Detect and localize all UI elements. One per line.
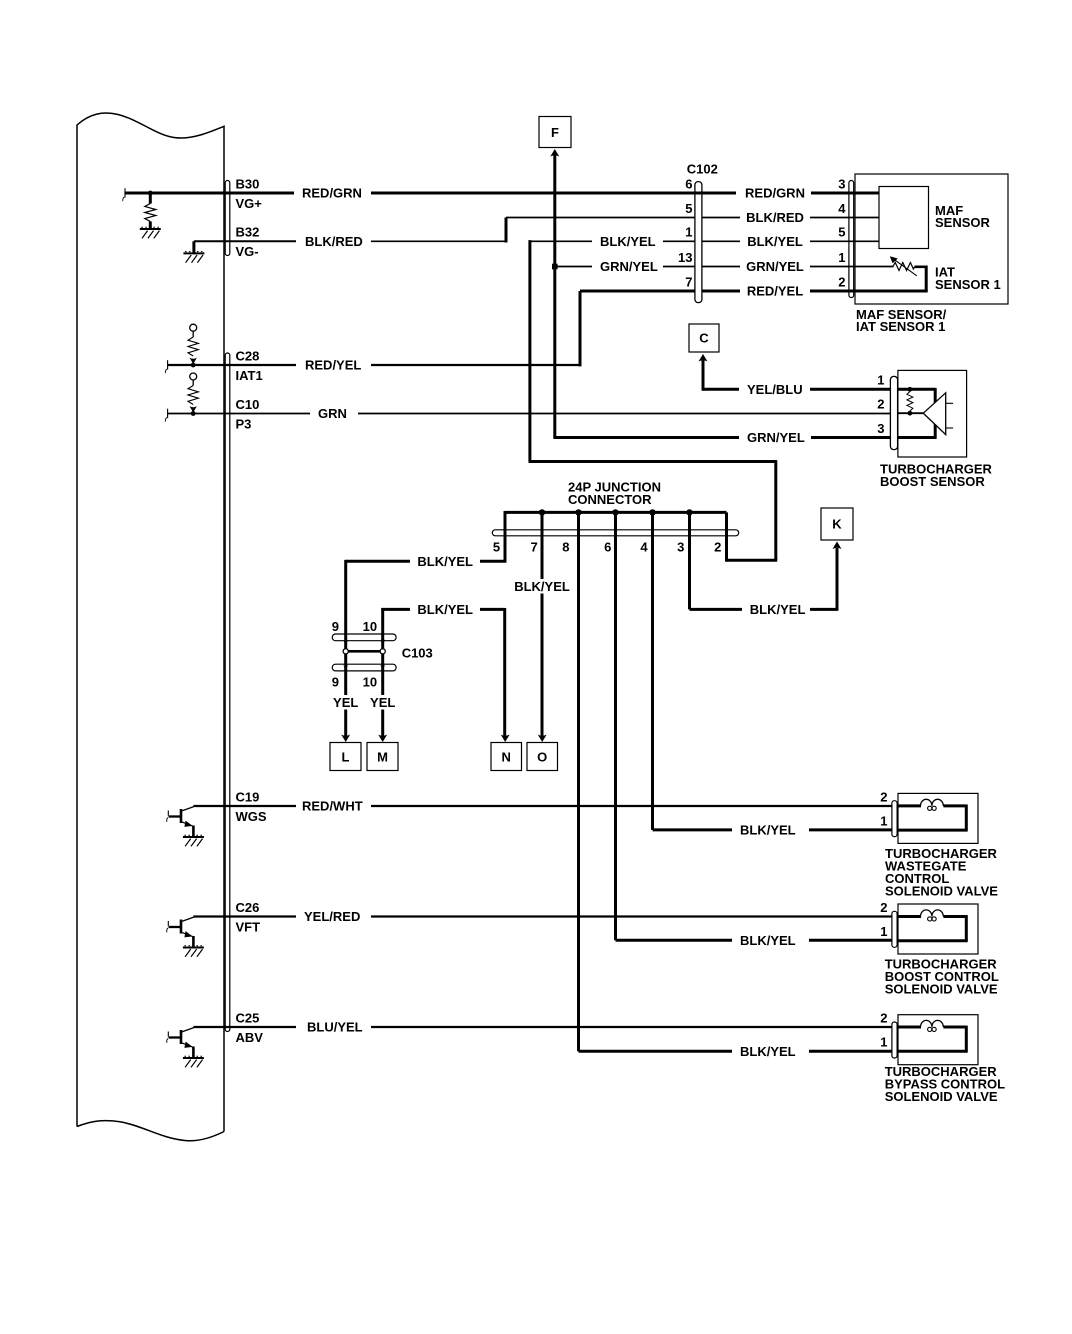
24P pin 5 vertical (504, 511, 507, 561)
wire BLK/YEL label to boost control solenoid pin 1 (809, 939, 892, 942)
svg-text:M: M (377, 749, 388, 764)
wire BLK/YEL label to K riser (810, 608, 837, 611)
transistor (ECM driver C26) collector lead (182, 917, 194, 921)
ground (B32) (183, 252, 204, 254)
svg-text:6: 6 (604, 540, 611, 555)
junction dot 24P bus x=542 (539, 509, 545, 515)
svg-text:C28: C28 (236, 348, 260, 363)
wire YEL/BLU label to boost pin 1 (810, 388, 890, 391)
svg-text:BLK/YEL: BLK/YEL (514, 579, 570, 594)
svg-text:C102: C102 (687, 161, 718, 176)
C103 terminal arrow pin 9 lower (343, 665, 348, 670)
wire BLK/YEL label to wastegate solenoid pin 1 (809, 828, 892, 831)
svg-text:3: 3 (838, 176, 845, 191)
bypass solenoid coil L (921, 1020, 944, 1027)
wire RED/GRN B30 stub with junction (125, 192, 294, 195)
svg-text:F: F (551, 125, 559, 140)
svg-text:1: 1 (880, 924, 887, 939)
transistor (ECM driver C25) collector lead (182, 1028, 194, 1032)
bypass solenoid internal return (897, 1050, 968, 1053)
junction dot GRN/YEL at F line (552, 264, 558, 270)
connector box F (539, 117, 571, 148)
transistor C25 emitter lead (182, 1043, 194, 1048)
wire BLK/YEL left segment to C102 pin 1 (530, 240, 592, 242)
svg-text:WGS: WGS (236, 809, 267, 824)
boost control solenoid internal return (897, 939, 968, 942)
svg-text:5: 5 (838, 225, 845, 240)
junction dot B30 resistor tap (148, 191, 153, 196)
ground (C26 driver) (183, 947, 204, 949)
bypass solenoid connector bracket (892, 1022, 897, 1058)
junction dot 24P bus x=689.5 (686, 509, 692, 515)
wire C103 pin 10 riser (381, 608, 384, 641)
svg-text:1: 1 (685, 225, 692, 240)
svg-text:BLK/RED: BLK/RED (305, 234, 363, 249)
transistor C26 emitter lead (182, 932, 194, 937)
24P junction connector strip (492, 530, 738, 536)
wire RED/GRN B30 to C102 pin 6 (371, 192, 736, 195)
svg-text:3: 3 (677, 540, 684, 555)
svg-text:10: 10 (363, 619, 377, 634)
transistor C26 base lead (169, 926, 181, 928)
junction dot C10 (191, 411, 196, 416)
triangle output tick lower (946, 427, 953, 429)
svg-text:8: 8 (562, 540, 569, 555)
wire B32 to ground corner (194, 240, 296, 242)
wastegate solenoid coil lead-in (897, 804, 921, 807)
svg-text:VG-: VG- (236, 244, 259, 259)
wire RED/YEL vertical jog (579, 291, 582, 366)
op-amp style triangle (boost sensor) (923, 393, 945, 435)
wire BLK/YEL right vertical (774, 460, 777, 560)
transistor C25 base bar (180, 1030, 183, 1044)
wire N riser vertical with arrow to N (503, 608, 506, 737)
wire BLK/YEL C102 pin1 right (702, 240, 740, 242)
svg-text:13: 13 (678, 250, 692, 265)
wire GRN label to boost pin 2 (358, 413, 890, 415)
wire BLK/RED C102 pin 5 to label (702, 217, 740, 219)
MAF sensor / IAT sensor 1 outer box (855, 174, 1008, 304)
24P pin 4 vertical (651, 511, 654, 830)
ECM connector bracket (B30,B32) (225, 181, 230, 256)
resistor lead (B30 pull-down) (149, 193, 152, 204)
connector C103 upper strip (332, 634, 396, 641)
wire BLK/YEL pin10 run right (381, 608, 410, 611)
svg-text:SOLENOID VALVE: SOLENOID VALVE (885, 1089, 998, 1104)
svg-text:N: N (502, 749, 511, 764)
wire RED/YEL C28 to label (168, 364, 296, 366)
C103 terminal arrow pin 9 upper (343, 640, 348, 645)
wire GRN C10 to label (168, 413, 310, 415)
svg-text:YEL/RED: YEL/RED (304, 909, 360, 924)
svg-text:BLK/YEL: BLK/YEL (740, 823, 796, 838)
resistor to ground lead (149, 222, 152, 230)
turbocharger boost sensor outer box (898, 370, 967, 457)
wire RED/YEL label to corner (371, 364, 580, 366)
transistor C19 base end tick (167, 811, 169, 816)
triangle output tick upper (946, 402, 953, 404)
MAF sensor inner box (879, 187, 929, 249)
svg-text:YEL: YEL (333, 695, 358, 710)
svg-text:3: 3 (877, 421, 884, 436)
wire GRN/YEL bottom run to boost sensor (553, 436, 739, 439)
boost control solenoid connector bracket (892, 911, 897, 947)
wire BLK/YEL main vertical (528, 240, 531, 461)
wire BLU/YEL C25 to label (193, 1026, 296, 1028)
24P junction connector bus bar (505, 511, 727, 514)
svg-text:C: C (699, 331, 709, 346)
svg-text:5: 5 (685, 201, 692, 216)
C103 jumper terminal circle left (343, 649, 348, 654)
svg-text:7: 7 (530, 540, 537, 555)
wire GRN/YEL label to IAT pin 1 (810, 266, 894, 268)
svg-text:IAT1: IAT1 (236, 368, 263, 383)
ground (C25 driver) (183, 1057, 204, 1059)
C103 internal jumper bar (346, 650, 383, 653)
C103 terminal arrow pin 10 lower (380, 665, 385, 670)
junction dot 24P bus x=615.5 (612, 509, 618, 515)
wastegate solenoid coil lead-out (943, 804, 966, 807)
wastegate solenoid connector bracket (892, 801, 897, 837)
connector C102 bracket (695, 182, 702, 303)
terminal circle (C28 pull-up) (190, 324, 197, 331)
wire BLK/YEL pin8 run (579, 1050, 733, 1053)
ground (C19 driver) (183, 836, 204, 838)
wire RED/GRN C102 pin 6 to MAF pin 3 (811, 192, 879, 195)
wire F arrow vertical (553, 155, 556, 438)
svg-text:4: 4 (838, 201, 846, 216)
transistor C26 base bar (180, 920, 183, 934)
svg-text:SENSOR: SENSOR (935, 215, 991, 230)
boost control solenoid coil lead-out (943, 915, 966, 918)
arrowhead into box F (550, 149, 559, 157)
ground (B30 resistor) (140, 228, 161, 230)
connector C103 lower strip (332, 664, 396, 671)
C103 pin 10 through connector (381, 639, 384, 695)
ECM/PCM block outline (torn edges) (77, 113, 224, 1141)
wire BLK/YEL label to MAF pin 5 (810, 240, 879, 242)
transistor C19 base bar (180, 809, 183, 823)
wire GRN inside boost sensor (898, 412, 923, 414)
svg-text:2: 2 (880, 900, 887, 915)
junction dot 24P bus x=652.5 (649, 509, 655, 515)
svg-text:10: 10 (363, 674, 377, 689)
svg-text:6: 6 (685, 176, 692, 191)
arrowhead onto C28 wire (189, 358, 197, 365)
svg-text:B32: B32 (236, 225, 260, 240)
connector box O (527, 743, 558, 771)
boost control solenoid internal vertical (965, 915, 968, 941)
wire 24P pin 2 below strip (725, 512, 728, 561)
wire BLK/YEL pin3 run (690, 608, 743, 611)
wire BLK/YEL pin6 run (616, 939, 733, 942)
wire BLK/YEL pin5 run left (480, 560, 506, 563)
wire RED/WHT C19 to label (193, 805, 296, 807)
connector box C (689, 324, 719, 352)
svg-text:VG+: VG+ (236, 196, 263, 211)
bypass solenoid internal vertical (965, 1026, 968, 1052)
svg-text:C10: C10 (236, 397, 260, 412)
svg-text:VFT: VFT (236, 919, 261, 934)
svg-text:2: 2 (838, 274, 845, 289)
wire GRN/YEL label to C102 pin 13 (663, 266, 695, 268)
wastegate solenoid internal return (897, 829, 968, 832)
wire BLK/YEL label to bypass solenoid pin 1 (809, 1050, 892, 1053)
svg-text:K: K (832, 517, 842, 532)
svg-text:BLK/RED: BLK/RED (746, 210, 804, 225)
wire end tick C10 (167, 409, 169, 418)
svg-text:C103: C103 (402, 645, 433, 660)
wire BLU/YEL label to solenoid pin 2 (371, 1026, 892, 1028)
wire RED/YEL to C102 pin 7 (580, 290, 695, 293)
svg-text:2: 2 (877, 397, 884, 412)
wire BLK/RED vertical jog (505, 218, 508, 243)
wire K riser vertical (836, 548, 839, 611)
wire boost internal pin3 run (898, 436, 937, 439)
svg-text:9: 9 (332, 619, 339, 634)
boost control solenoid coil L (921, 910, 944, 917)
svg-text:GRN/YEL: GRN/YEL (746, 259, 804, 274)
bypass solenoid coil lead-out (943, 1026, 966, 1029)
turbocharger boost control solenoid valve box (898, 904, 978, 954)
junction dot boost pin2 (908, 411, 913, 416)
svg-text:BLK/YEL: BLK/YEL (740, 1044, 796, 1059)
wire BLK/RED B32 to jog (371, 240, 506, 242)
svg-text:BLK/YEL: BLK/YEL (600, 234, 656, 249)
svg-text:1: 1 (880, 814, 887, 829)
transistor C19 base lead (169, 815, 181, 817)
C103 terminal arrow pin 10 upper (380, 640, 385, 645)
wire GRN/YEL label to boost pin 3 (811, 436, 890, 439)
junction dot C28 (191, 363, 196, 368)
resistor R (B30 to ground) (145, 204, 156, 222)
arrowhead onto C10 wire (189, 406, 197, 413)
transistor C19 emitter arrow (184, 821, 192, 827)
wire IAT link to vertical (915, 265, 927, 268)
junction dot boost pin1 (908, 387, 913, 392)
connector box K (821, 508, 853, 540)
wastegate solenoid coil L (921, 799, 944, 806)
svg-text:YEL/BLU: YEL/BLU (747, 382, 803, 397)
svg-text:BLK/YEL: BLK/YEL (417, 602, 473, 617)
svg-text:ABV: ABV (236, 1030, 264, 1045)
wire end tick C28 (167, 360, 169, 369)
wire RED/WHT label to solenoid pin 2 (371, 805, 892, 807)
wire GRN/YEL C102 pin 13 right (702, 266, 740, 268)
transistor C26 emitter arrow (184, 931, 192, 937)
transistor C26 emitter drop (192, 936, 195, 948)
wire BLK/YEL pin4 run (653, 828, 733, 831)
turbocharger bypass control solenoid valve box (898, 1015, 978, 1065)
svg-text:CONNECTOR: CONNECTOR (568, 492, 652, 507)
turbocharger wastegate control solenoid valve box (898, 793, 978, 843)
svg-text:B30: B30 (236, 176, 260, 191)
wire YEL/RED C26 to label (193, 915, 296, 917)
svg-text:C19: C19 (236, 789, 260, 804)
wire IAT vertical to pin 2 row (925, 266, 928, 292)
svg-text:4: 4 (640, 540, 648, 555)
boost sensor connector bracket (890, 376, 897, 449)
C103 pin 9 vertical upper (344, 560, 347, 695)
thermistor arrow diagonal (894, 259, 917, 276)
svg-text:P3: P3 (236, 416, 252, 431)
svg-text:BLK/YEL: BLK/YEL (417, 554, 473, 569)
svg-text:1: 1 (838, 250, 845, 265)
svg-text:RED/YEL: RED/YEL (305, 358, 361, 373)
resistor R (C10 pull-up) (188, 386, 198, 405)
wire boost internal vertical (934, 388, 937, 438)
ground lead B32 (192, 241, 195, 253)
arrowhead into box C (699, 354, 708, 362)
svg-text:2: 2 (714, 540, 721, 555)
C103 pin 10 lower with arrow to M (381, 710, 384, 737)
svg-text:2: 2 (880, 1010, 887, 1025)
transistor C19 emitter drop (192, 826, 195, 838)
wire boost internal pin1 run (898, 388, 935, 391)
svg-text:GRN/YEL: GRN/YEL (747, 430, 805, 445)
transistor C19 emitter lead (182, 822, 194, 827)
transistor C26 base end tick (167, 921, 169, 926)
wire BLK/YEL label to C102 pin 1 (663, 240, 695, 242)
connector box L (330, 743, 361, 771)
svg-text:SOLENOID VALVE: SOLENOID VALVE (885, 884, 998, 899)
wire BLK/RED jog to C102 pin 5 (506, 217, 695, 219)
thermistor RT (IAT sensor 1) (893, 263, 915, 271)
svg-text:7: 7 (685, 274, 692, 289)
svg-text:RED/YEL: RED/YEL (747, 284, 803, 299)
24P pin 8 vertical (577, 511, 580, 1051)
pull-up lead C28 (192, 331, 194, 337)
wire YEL/RED label to solenoid pin 2 (371, 915, 892, 917)
C103 pin 9 vertical lower with arrow to L (344, 710, 347, 737)
svg-text:C25: C25 (236, 1010, 260, 1025)
svg-text:C26: C26 (236, 900, 260, 915)
transistor C25 emitter arrow (184, 1042, 192, 1048)
svg-text:BLK/YEL: BLK/YEL (747, 234, 803, 249)
svg-text:BLU/YEL: BLU/YEL (307, 1020, 363, 1035)
connector box N (491, 743, 522, 771)
svg-text:BLK/YEL: BLK/YEL (750, 602, 806, 617)
svg-text:RED/GRN: RED/GRN (745, 186, 805, 201)
svg-text:9: 9 (332, 674, 339, 689)
24P pin 7 vertical lower with arrow to O (541, 594, 544, 737)
svg-text:BOOST SENSOR: BOOST SENSOR (880, 474, 985, 489)
svg-text:O: O (537, 749, 547, 764)
boost control solenoid coil lead-in (897, 915, 921, 918)
svg-text:IAT SENSOR 1: IAT SENSOR 1 (856, 319, 945, 334)
arrowhead into box K (833, 542, 842, 550)
24P pin 7 vertical upper (541, 511, 544, 579)
svg-text:1: 1 (880, 1035, 887, 1050)
svg-text:1: 1 (877, 373, 884, 388)
wire BLK/YEL label to N riser (480, 608, 505, 611)
svg-text:RED/WHT: RED/WHT (302, 799, 363, 814)
bypass solenoid coil lead-in (897, 1026, 921, 1029)
wire BLK/YEL pin5 label to C103 pin 9 (346, 560, 410, 563)
wire end tick B30 (124, 188, 126, 197)
wire GRN/YEL dot to label (555, 266, 592, 268)
svg-text:GRN/YEL: GRN/YEL (600, 259, 658, 274)
wastegate solenoid internal vertical (965, 805, 968, 831)
junction dot 24P bus x=578.5 (575, 509, 581, 515)
resistor R (boost sensor internal) (907, 392, 913, 412)
terminal circle (C10 pull-up) (190, 373, 197, 380)
svg-text:SOLENOID VALVE: SOLENOID VALVE (885, 982, 998, 997)
ECM connector bracket (C28..C25) (225, 353, 230, 1032)
transistor (ECM driver C19) collector lead (182, 807, 194, 811)
svg-text:BLK/YEL: BLK/YEL (740, 933, 796, 948)
wire RED/YEL C102 pin 7 right (702, 290, 740, 293)
wire YEL/BLU to label (703, 388, 739, 391)
wire BLK/RED label to MAF pin 4 (810, 217, 879, 219)
svg-text:2: 2 (880, 789, 887, 804)
wire C arrow vertical (702, 360, 705, 391)
C103 jumper terminal circle right (380, 649, 385, 654)
svg-text:SENSOR 1: SENSOR 1 (935, 277, 1001, 292)
svg-text:RED/GRN: RED/GRN (302, 186, 362, 201)
MAF sensor connector bracket (849, 181, 854, 298)
transistor C25 base lead (169, 1036, 181, 1038)
svg-text:L: L (342, 749, 350, 764)
wire RED/YEL label to IAT pin 2 (810, 290, 928, 293)
connector box M (367, 743, 398, 771)
transistor C25 base end tick (167, 1032, 169, 1037)
svg-text:GRN: GRN (318, 406, 347, 421)
wire BLK/YEL horizontal run (529, 460, 776, 463)
svg-text:YEL: YEL (370, 695, 395, 710)
wire BLK/YEL bottom jog (727, 559, 778, 562)
thermistor arrowhead (890, 256, 898, 263)
pull-up lead C10 (192, 380, 194, 386)
resistor R (C28 pull-up) (188, 337, 198, 356)
svg-text:5: 5 (493, 540, 500, 555)
24P pin 6 vertical (614, 511, 617, 940)
transistor C25 emitter drop (192, 1047, 195, 1059)
24P pin 3 vertical (688, 511, 691, 609)
